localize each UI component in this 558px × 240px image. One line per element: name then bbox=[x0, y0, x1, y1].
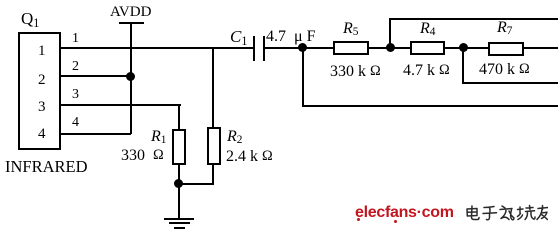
capacitor C1 right plate bbox=[263, 36, 265, 61]
pin 2 number (inside) bbox=[38, 73, 46, 88]
wire riser from R5 junction bbox=[389, 18, 391, 48]
resistor R1 body bbox=[172, 129, 186, 165]
resistor R1 value 330 ohm bbox=[121, 148, 164, 164]
wire R7 to right edge bbox=[524, 47, 558, 49]
wire R2 drop from pin1 net bbox=[212, 47, 214, 128]
wire pin2 to AVDD node bbox=[61, 75, 131, 77]
resistor R5 value 330 kohm bbox=[330, 64, 381, 80]
watermark elecfans logo curl dots bbox=[357, 218, 360, 221]
label INFRARED bbox=[5, 159, 88, 176]
wire bottom joining R1 R2 bbox=[178, 183, 214, 185]
junction after R4 bbox=[459, 43, 468, 52]
pin 1 number (inside) bbox=[38, 44, 46, 59]
wire mid rail to right edge bbox=[462, 82, 558, 84]
junction after C1 bbox=[298, 43, 307, 52]
wire pin1 to C1 bbox=[61, 47, 255, 49]
junction after R5 bbox=[386, 43, 395, 52]
wire top rail to right edge bbox=[389, 18, 558, 20]
watermark chinese 电子发烧友 bbox=[464, 204, 548, 224]
resistor R2 value 2.4 kohm bbox=[226, 149, 273, 165]
wire R2 bottom bbox=[212, 164, 214, 185]
pin 4 net label bbox=[72, 116, 79, 130]
pin 1 net label bbox=[72, 32, 79, 46]
resistor R4 body bbox=[410, 41, 445, 55]
resistor R4 designator bbox=[420, 21, 435, 37]
wire C1 to R5 bbox=[265, 47, 333, 49]
resistor R7 value 470 kohm bbox=[479, 62, 530, 78]
wire pin4 horizontal bbox=[61, 133, 131, 135]
wire bottom rail to right edge bbox=[302, 105, 558, 107]
wire R4 to R7 bbox=[445, 47, 489, 49]
pin 2 net label bbox=[72, 60, 79, 74]
capacitor C1 left plate bbox=[253, 36, 255, 61]
resistor R7 body bbox=[488, 42, 524, 56]
connector Q1 body bbox=[18, 32, 61, 150]
resistor R7 designator bbox=[497, 20, 512, 36]
capacitor C1 designator bbox=[230, 28, 247, 45]
wire pin3 horizontal bbox=[61, 104, 181, 106]
wire AVDD vertical to pin4 net bbox=[130, 23, 132, 134]
pin 4 number (inside) bbox=[38, 127, 46, 142]
junction pin2/AVDD bbox=[126, 72, 135, 81]
resistor R2 body bbox=[207, 127, 221, 165]
wire drop from C1 junction bbox=[302, 48, 304, 106]
ground symbol bbox=[164, 218, 194, 220]
connector Q1 label bbox=[21, 10, 39, 27]
wire R5 to R4 bbox=[369, 47, 410, 49]
watermark elecfans.com bbox=[355, 205, 454, 221]
wire R1 bottom bbox=[178, 164, 180, 185]
resistor R2 designator bbox=[227, 129, 242, 145]
wire pin3 drop to R1 bbox=[178, 104, 180, 130]
pin 3 net label bbox=[72, 88, 79, 102]
capacitor C1 value 4.7 uF bbox=[266, 29, 286, 45]
wire drop from R4 junction bbox=[462, 48, 464, 84]
power AVDD label bbox=[110, 5, 151, 20]
power AVDD bar bbox=[119, 22, 144, 24]
resistor R5 body bbox=[333, 41, 369, 55]
pin 3 number (inside) bbox=[38, 100, 46, 115]
wire ground stem bbox=[178, 184, 180, 218]
resistor R4 value 4.7 kohm bbox=[403, 63, 450, 79]
resistor R1 designator bbox=[151, 129, 166, 145]
resistor R5 designator bbox=[343, 21, 358, 37]
junction R1 bottom bbox=[174, 179, 183, 188]
